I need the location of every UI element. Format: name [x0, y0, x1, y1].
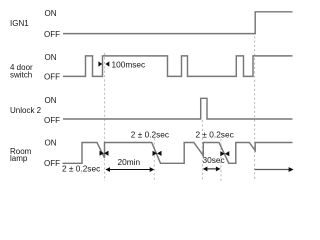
svg-text:OFF: OFF	[44, 116, 60, 125]
svg-text:ON: ON	[45, 96, 57, 105]
arrow time-continues	[255, 167, 294, 172]
dashed timeline t2 (20min end)	[153, 138, 155, 181]
svg-text:30sec: 30sec	[203, 155, 225, 165]
waveform Room lamp	[63, 143, 293, 164]
svg-text:100msec: 100msec	[112, 59, 146, 69]
waveform 4 door switch	[63, 56, 293, 77]
arrow 30sec span	[203, 167, 221, 172]
svg-text:switch: switch	[10, 71, 32, 80]
svg-text:IGN1: IGN1	[10, 19, 29, 28]
waveform Unlock 2	[63, 98, 293, 119]
svg-text:ON: ON	[45, 9, 57, 18]
dashed timeline t5 (IGN1 on)	[254, 36, 256, 181]
fade bowtie ramp2	[153, 151, 162, 156]
svg-text:OFF: OFF	[44, 159, 60, 168]
svg-text:2 ± 0.2sec: 2 ± 0.2sec	[62, 164, 100, 174]
arrow 20min span	[105, 167, 154, 172]
dashed timeline t3 (30sec start)	[201, 120, 203, 181]
svg-text:Unlock 2: Unlock 2	[10, 106, 42, 115]
svg-text:ON: ON	[45, 138, 57, 147]
waveform IGN1	[63, 12, 293, 34]
svg-text:OFF: OFF	[44, 73, 60, 82]
fade bowtie ramp1	[100, 151, 109, 156]
dashed timeline t4 (30sec end)	[220, 139, 222, 181]
svg-text:lamp: lamp	[10, 154, 28, 163]
svg-text:20min: 20min	[118, 157, 141, 167]
svg-text:2 ± 0.2sec: 2 ± 0.2sec	[131, 129, 169, 139]
annotation 100msec arrows	[98, 61, 109, 66]
fade bowtie ramp4	[220, 151, 229, 156]
svg-text:2 ± 0.2sec: 2 ± 0.2sec	[196, 129, 234, 139]
svg-text:ON: ON	[45, 53, 57, 62]
dashed timeline t1 (100msec reference)	[104, 53, 106, 181]
svg-text:OFF: OFF	[44, 30, 60, 39]
